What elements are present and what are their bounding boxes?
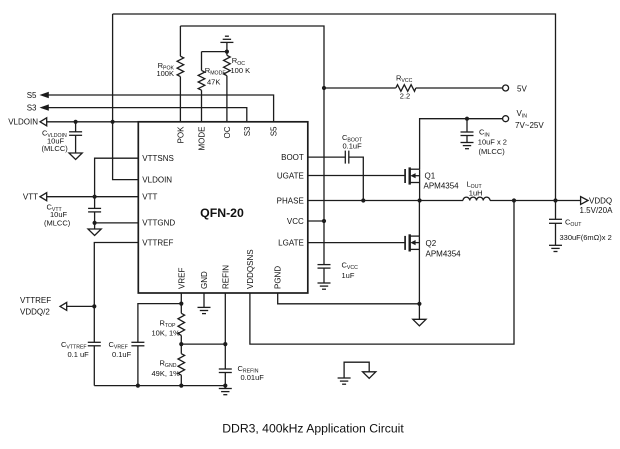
ground (signal) below C_VLDOIN [69,153,82,160]
wire Q2 drain to phase [418,201,420,237]
svg-text:100K: 100K [156,69,174,78]
svg-text:VTTREF: VTTREF [20,296,51,305]
wire UGATE row [308,175,405,177]
svg-text:100 K: 100 K [231,66,251,75]
svg-text:APM4354: APM4354 [426,249,462,258]
svg-text:5V: 5V [517,84,527,93]
wire LGATE row [308,242,405,244]
svg-text:0.1uF: 0.1uF [343,142,363,151]
node OC top dot [225,50,229,54]
wire VLDOIN riser [113,14,139,180]
wire VIN row [420,119,503,169]
svg-text:1uF: 1uF [342,271,355,280]
svg-text:0.1 uF: 0.1 uF [68,350,90,359]
capacitor C_VTT [44,197,101,229]
wire VTT row [47,196,139,198]
svg-text:GND: GND [200,271,209,289]
node VDDQSNS tap dot [512,198,516,202]
svg-text:10K, 1%: 10K, 1% [152,329,181,338]
arrow VDDQ output [581,197,588,205]
wire VTTGND row [95,222,139,224]
ground (signal) below Q2 [413,319,426,326]
arrow VLDOIN [40,118,47,126]
svg-text:(MLCC): (MLCC) [42,144,69,153]
capacitor C_BOOT [308,133,364,201]
svg-text:Q2: Q2 [426,239,437,248]
ground (earth) below C_IN [461,143,474,149]
resistor R_TOP [152,313,185,344]
resistor R_MODE [198,52,226,122]
svg-text:S3: S3 [27,103,37,112]
svg-text:VTT: VTT [23,193,38,202]
ground (signal) below C_VTT [88,229,101,236]
node C_REFIN bottom dot [223,384,227,388]
svg-text:VTTREF: VTTREF [142,238,173,247]
capacitor C_REFIN [219,293,264,389]
wire VDDQSNS loop [250,201,514,345]
IC U1 QFN-20 body [138,122,307,293]
resistor R_GND [152,344,185,386]
capacitor C_VCC [318,261,359,284]
svg-text:VTTGND: VTTGND [142,219,175,228]
capacitor C_VREF [109,304,182,386]
ground (earth) below C_OUT [549,245,562,251]
node VTTGND dot [93,221,97,225]
wire REFIN row [181,343,225,345]
ground (earth) below C_VCC [318,283,331,289]
node C_VREF bottom dot [136,384,140,388]
arrow S5 [40,92,49,98]
node C_IN dot [465,117,469,121]
svg-text:0.1uF: 0.1uF [112,350,132,359]
wire VCC pin stub [308,220,324,222]
svg-text:PHASE: PHASE [277,196,304,205]
resistor R_VCC [324,73,503,100]
wire VTTREF row from pin [94,243,138,343]
node phase dot [418,198,422,202]
svg-text:1uH: 1uH [469,189,483,198]
svg-text:(MLCC): (MLCC) [479,147,506,156]
svg-text:QFN-20: QFN-20 [200,206,244,220]
terminal VIN [503,116,509,122]
wire bottom reference row [94,385,225,387]
node VREF dot [179,302,183,306]
transistor Q2 APM4354 [405,234,461,258]
ground (earth, inverted) above R_OC [220,36,233,42]
svg-text:VDDQ: VDDQ [589,196,612,205]
svg-text:DDR3, 400kHz Application Circu: DDR3, 400kHz Application Circuit [222,422,404,436]
node pgnd dot [417,302,421,306]
svg-text:BOOT: BOOT [281,153,304,162]
svg-text:MODE: MODE [198,127,207,151]
ground (earth) GND pin [198,293,211,314]
svg-text:VCC: VCC [287,217,304,226]
svg-text:330uF(6mΩ)x 2: 330uF(6mΩ)x 2 [560,233,612,242]
wire POK pullup to VCC riser [180,26,324,265]
wire top VLDOIN-to-VDDQ [113,14,556,201]
node VLDOIN/C dot [74,120,78,124]
svg-text:(MLCC): (MLCC) [44,218,71,227]
ground legend symbol [338,362,376,384]
node VTT dot [93,195,97,199]
node VTTREF dot [92,304,96,308]
ground (earth) below C_REFIN [219,389,232,395]
svg-text:47K: 47K [207,77,220,86]
inductor L_OUT [463,180,490,201]
svg-text:2.2: 2.2 [400,92,410,101]
svg-text:POK: POK [176,126,185,144]
svg-text:VREF: VREF [177,268,186,289]
svg-text:S5: S5 [270,126,279,136]
node R_GND bottom dot [179,384,183,388]
node C_OUT tap dot [553,198,557,202]
svg-text:7V~25V: 7V~25V [515,121,544,130]
wire S3 row [49,108,247,122]
svg-text:VTTSNS: VTTSNS [142,154,174,163]
capacitor C_VTTREF [61,340,101,386]
svg-text:S5: S5 [27,91,37,100]
transistor Q1 APM4354 [405,167,459,190]
svg-text:VDDQ/2: VDDQ/2 [20,308,50,317]
wire PHASE row [308,200,463,202]
arrow VTTREF [60,302,67,310]
svg-text:S3: S3 [243,126,252,136]
svg-text:LGATE: LGATE [278,238,304,247]
terminal 5V [503,85,509,91]
svg-text:1.5V/20A: 1.5V/20A [580,206,614,215]
node VCC riser / R_VCC dot [322,86,326,90]
svg-text:VLDOIN: VLDOIN [8,118,38,127]
capacitor C_VLDOIN [42,122,83,153]
wire VREF pin riser [180,293,182,313]
wire output row [490,200,581,202]
wire VLDOIN row [47,121,139,123]
resistor R_POK [156,26,183,122]
node REFIN dot [223,342,227,346]
wire VTTSNS to VTT sense [95,158,139,197]
capacitor C_OUT [549,201,612,246]
svg-text:VDDQSNS: VDDQSNS [246,249,255,289]
node VLDOIN/riser dot [111,120,115,124]
svg-text:REFIN: REFIN [221,265,230,289]
svg-text:10uF x 2: 10uF x 2 [478,137,507,146]
svg-text:0.01uF: 0.01uF [241,373,265,382]
svg-text:APM4354: APM4354 [424,181,460,190]
svg-text:VTT: VTT [142,193,157,202]
wire Q1 source to phase [419,183,421,201]
capacitor C_IN [461,119,507,156]
svg-text:VLDOIN: VLDOIN [142,175,172,184]
arrow VTT [40,193,47,201]
resistor R_OC [224,42,251,121]
wire VTTREF arrow stub [67,305,95,307]
svg-text:PGND: PGND [274,266,283,289]
arrow S3 [40,104,49,110]
node VCC pin dot [322,219,326,223]
wire PGND row [278,293,420,304]
svg-text:Q1: Q1 [425,171,436,180]
wire S5 row [49,95,274,122]
svg-text:49K, 1%: 49K, 1% [152,369,181,378]
svg-text:UGATE: UGATE [277,171,304,180]
svg-text:OC: OC [223,126,232,138]
node divider dot [179,342,183,346]
wire R_MODE top link [202,51,227,53]
wire Q2 source to pgnd [418,249,420,319]
node C_BOOT/PHASE dot [361,198,365,202]
